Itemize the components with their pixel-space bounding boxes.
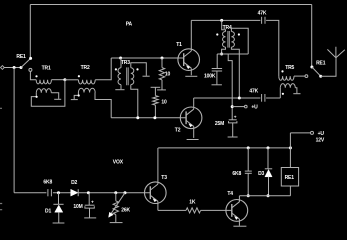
resistor 10 second xyxy=(153,96,158,106)
node A TR1/TR2 junction xyxy=(63,78,66,81)
ground bar T2 emitter xyxy=(187,139,199,141)
terminal +U ring xyxy=(245,105,248,108)
transistor T2 collector stroke xyxy=(186,108,194,116)
wire D1 top lead xyxy=(58,193,60,204)
transformer TR2 primary winding xyxy=(78,80,95,84)
terminal +U 12V ring xyxy=(311,131,314,134)
wire TR4 right winding bottom to node B xyxy=(231,47,239,98)
wire T1 emitter to ground xyxy=(190,70,192,76)
wire T2 emitter to ground xyxy=(193,128,195,138)
TR5 secondary polarity dot xyxy=(282,93,284,95)
node resistor 10 top junction xyxy=(161,57,164,60)
svg-text:TR2: TR2 xyxy=(81,65,90,71)
svg-text:D3: D3 xyxy=(258,171,264,177)
node D3 bottom junction xyxy=(267,194,270,197)
wire TR4 left winding top lead xyxy=(222,20,226,31)
svg-text:RE1: RE1 xyxy=(316,61,326,67)
ground bar pot 26K xyxy=(110,222,123,224)
svg-text:47K: 47K xyxy=(258,10,267,16)
transistor T4 emitter stroke with arrow xyxy=(232,213,240,221)
ground bar T4 emitter xyxy=(233,225,246,227)
wire TR3 right top to ground xyxy=(131,63,147,76)
svg-text:D1: D1 xyxy=(45,209,51,215)
ground bar 10M xyxy=(84,217,96,219)
wire T4 collector up xyxy=(238,196,240,202)
transistor T4 base bar xyxy=(231,204,233,217)
transistor T3 emitter stroke with arrow xyxy=(150,195,158,203)
svg-text:10: 10 xyxy=(165,72,171,78)
capacitor 47K mid right plate xyxy=(264,94,266,102)
wire T1 collector up to oscillator rail xyxy=(190,20,192,49)
transistor T4 circle xyxy=(226,200,248,222)
transistor T2 circle xyxy=(180,107,202,129)
node relay RE1 right pole xyxy=(310,66,313,69)
wire long left vertical to VOX input xyxy=(13,68,15,193)
capacitor interstage plate upper xyxy=(151,86,161,88)
node pot top junction xyxy=(114,191,117,194)
ground bar cap 100K xyxy=(212,84,222,86)
wire T2 collector up xyxy=(193,98,195,107)
wire right drop from top rail to relay RE1 pole xyxy=(311,5,313,68)
node TR3 top junction xyxy=(119,57,122,60)
ground bar TR5 secondary xyxy=(293,93,300,95)
wire +U 12V feed xyxy=(290,132,310,134)
wire cap 47K to TR5 xyxy=(266,20,279,76)
wire TR2 primary right up to T1 base line xyxy=(95,58,111,80)
wire TR2 secondary right down to VOX line xyxy=(95,93,111,118)
wire TR4 right winding top loop xyxy=(231,28,248,54)
svg-text:T4: T4 xyxy=(227,191,233,197)
node relay arm to antenna xyxy=(319,75,322,78)
scan artifact ticks left edge xyxy=(0,108,2,209)
TR4 core xyxy=(228,31,229,48)
wire TR4 bottom rail xyxy=(217,53,248,55)
TR3 core xyxy=(127,67,129,85)
svg-text:12V: 12V xyxy=(316,138,325,144)
wire T1 base line xyxy=(111,57,184,59)
node D1 top junction xyxy=(57,191,60,194)
wire TR1 primary to node A xyxy=(51,79,65,81)
transistor T1 base bar xyxy=(183,53,185,66)
wire cap 47K mid to TR5 secondary xyxy=(266,97,280,99)
node 6K8 bottom junction xyxy=(247,194,250,197)
svg-text:10: 10 xyxy=(161,99,167,105)
node 10M junction xyxy=(87,191,90,194)
node +U junction xyxy=(231,105,234,108)
TR2 secondary polarity dot xyxy=(78,94,80,96)
resistor 1K xyxy=(186,208,201,213)
capacitor 47K mid left plate xyxy=(261,94,263,102)
wire resistor 10 second to T2 base line xyxy=(154,105,156,118)
transformer TR1 secondary winding xyxy=(36,89,51,93)
diode D2 cathode bar xyxy=(77,189,79,196)
diode D1 cathode bar xyxy=(53,203,63,205)
svg-text:T3: T3 xyxy=(161,175,167,181)
wire TR5 primary to relay contact xyxy=(294,75,305,77)
ground bar cap 25M xyxy=(228,136,238,138)
svg-text:47K: 47K xyxy=(249,89,258,95)
wire D1 bottom lead xyxy=(58,212,60,222)
TR3 right polarity dot xyxy=(136,68,138,70)
svg-text:6K8: 6K8 xyxy=(232,171,241,177)
wire D2 to T3 base xyxy=(78,192,150,194)
wire oscillator rail T1 to cap 47K xyxy=(191,19,260,21)
svg-text:RE1: RE1 xyxy=(285,175,295,181)
transistor T2 base bar xyxy=(185,111,187,124)
svg-text:D2: D2 xyxy=(71,180,77,186)
ground bar D1 xyxy=(53,222,65,224)
wire VOX supply rail xyxy=(158,147,290,149)
transistor T3 circle xyxy=(145,182,167,204)
svg-text:PA: PA xyxy=(126,21,133,27)
capacitor 6K8 right plate xyxy=(50,189,52,196)
node wiper junction xyxy=(124,191,127,194)
TR5 primary polarity dot xyxy=(281,70,283,72)
capacitor 25M top plate xyxy=(229,119,237,121)
node resistor bottom junction xyxy=(153,116,156,119)
TR1 secondary polarity dot xyxy=(36,96,38,98)
wire input to relay common xyxy=(4,67,21,69)
TR2 primary polarity dot xyxy=(78,75,80,77)
transistor T3 collector stroke xyxy=(150,183,158,191)
transistor T2 emitter stroke with arrow xyxy=(186,120,194,128)
wire TR5 secondary left down to cap rail xyxy=(279,88,281,98)
svg-text:TR3: TR3 xyxy=(121,60,130,66)
node relay arm top xyxy=(29,57,32,60)
relay RE1 switch arm xyxy=(21,58,31,67)
wire 6K8 top lead xyxy=(247,148,249,171)
wire 1K to T4 base xyxy=(201,209,232,211)
wire left drop from top rail to relay contact xyxy=(29,5,31,59)
transistor T4 collector stroke xyxy=(232,200,240,208)
wire VOX input line xyxy=(14,192,46,194)
ground bar TR2 secondary xyxy=(71,99,78,101)
wire T3 collector up to VOX rail xyxy=(157,148,159,183)
relay RE1 coil box xyxy=(281,168,298,187)
wire relay contact to TR1 primary xyxy=(30,71,36,79)
wire rail to capacitor 100K xyxy=(216,54,218,68)
antenna symbol xyxy=(327,47,344,58)
relay RE1 right open contact xyxy=(305,75,308,78)
ground bar TR3 right top xyxy=(143,75,150,77)
node D3 top junction xyxy=(267,146,270,149)
relay RE1 open contact xyxy=(29,68,32,71)
capacitor 6K8 left plate xyxy=(47,189,49,196)
ground bar TR1 secondary xyxy=(54,98,61,100)
transformer TR3 left winding xyxy=(118,68,121,85)
wire pot bottom lead xyxy=(115,215,117,223)
capacitor 47K top right plate xyxy=(264,17,266,24)
node relay coil top junction xyxy=(289,146,292,149)
wire TR3 right bottom down to VOX line xyxy=(131,85,138,118)
transistor T1 emitter stroke with arrow xyxy=(184,62,192,70)
capacitor 6K8 right bottom plate xyxy=(245,172,252,174)
transformer TR2 secondary winding xyxy=(78,88,95,92)
diode D2 triangle xyxy=(71,189,78,196)
transistor T3 base bar xyxy=(149,186,151,199)
svg-text:T1: T1 xyxy=(176,42,182,48)
wire 10M to ground xyxy=(89,208,91,217)
wire TR3 left winding to ground xyxy=(120,85,122,90)
svg-text:100K: 100K xyxy=(204,74,216,80)
node TR4 bottom junction xyxy=(220,53,223,56)
svg-text:25M: 25M xyxy=(215,121,224,127)
ground bar TR3 left xyxy=(115,89,124,91)
wire TR5 secondary right to ground xyxy=(295,88,297,94)
capacitor 100K bottom plate xyxy=(212,70,222,72)
TR1 primary polarity dot xyxy=(35,75,37,77)
wire relay bottom rail to T4 collector xyxy=(239,195,290,197)
wire TR3 left winding top lead xyxy=(120,58,122,68)
wire T4 emitter to ground xyxy=(238,221,240,226)
wire 10M top lead xyxy=(88,193,90,205)
transformer TR5 secondary winding xyxy=(280,84,295,88)
wire relay coil top lead xyxy=(289,148,291,168)
node input junction xyxy=(13,66,16,69)
svg-text:T2: T2 xyxy=(175,127,181,133)
node TR3 bottom junction xyxy=(136,116,139,119)
potentiometer 26K resistor xyxy=(113,201,118,215)
capacitor 10M top plate xyxy=(85,204,95,206)
transformer TR5 primary winding xyxy=(279,76,294,80)
diode D1 triangle xyxy=(55,205,63,212)
node TR4 top junction xyxy=(220,19,223,22)
wire +U stub xyxy=(232,106,244,108)
svg-text:TR5: TR5 xyxy=(285,65,294,71)
transformer TR1 primary winding xyxy=(36,80,51,84)
node relay common xyxy=(20,66,23,69)
wire cap to resistor 10 second xyxy=(154,87,156,95)
wire 12V down to rail xyxy=(289,133,291,148)
resistor 10 first lead xyxy=(161,58,163,68)
svg-text:1K: 1K xyxy=(189,199,196,205)
potentiometer 26K wiper arrow xyxy=(111,193,125,214)
TR4 left polarity dot xyxy=(216,33,218,35)
transformer TR4 right winding xyxy=(231,32,234,48)
capacitor 25M bracket plate xyxy=(229,121,237,123)
wire D3 bottom lead xyxy=(268,177,270,196)
svg-text:+U: +U xyxy=(318,131,325,137)
wire D3 top lead xyxy=(267,148,269,169)
wire T3 emitter to 1K xyxy=(158,209,186,211)
wire 6K8 bottom lead xyxy=(247,173,249,195)
wire top PA supply rail xyxy=(30,4,311,6)
capacitor 100K top plate xyxy=(212,68,222,70)
transformer TR4 left winding xyxy=(223,32,226,48)
resistor 10 first xyxy=(159,68,164,80)
svg-text:+U: +U xyxy=(251,104,258,110)
capacitor 47K top left plate xyxy=(261,17,263,24)
transistor T1 collector stroke xyxy=(184,49,192,57)
wire T2 base line xyxy=(111,117,186,119)
TR3 left polarity dot xyxy=(115,68,117,70)
wire collector rail T2 y98 xyxy=(194,97,261,99)
capacitor 6K8 right top plate xyxy=(245,170,252,172)
svg-text:TR1: TR1 xyxy=(42,66,51,72)
diode D3 triangle xyxy=(265,170,272,177)
relay RE1 right switch arm xyxy=(312,67,321,76)
TR4 right polarity dot xyxy=(238,33,240,35)
wire pot 26K top lead xyxy=(115,193,117,201)
wire node A to TR2 primary xyxy=(65,79,79,81)
transformer TR3 right winding xyxy=(131,68,134,85)
wire TR1 secondary left loop to node A xyxy=(31,80,65,106)
wire TR2 secondary left to ground xyxy=(74,93,78,100)
wire TR4 left winding bottom lead xyxy=(222,47,226,54)
wire cap 25M to ground xyxy=(232,123,234,137)
wire TR1 secondary right to ground xyxy=(51,93,58,99)
wire relay coil bottom lead xyxy=(289,186,291,196)
wire cap to D2 xyxy=(53,192,71,194)
svg-text:26K: 26K xyxy=(121,208,130,214)
wire cap 100K to ground xyxy=(216,71,218,84)
relay RE1 input port diamond xyxy=(1,66,5,70)
ground bar T1 emitter xyxy=(185,75,197,77)
node 6K8 top junction xyxy=(247,146,250,149)
capacitor interstage plate lower xyxy=(157,89,166,91)
svg-text:VOX: VOX xyxy=(113,159,124,165)
svg-text:6K8: 6K8 xyxy=(43,180,52,186)
transistor T1 circle xyxy=(178,49,200,71)
wire relay to antenna xyxy=(321,58,336,76)
wire TR4 rail step down +U feed xyxy=(228,54,232,120)
diode D3 cathode bar xyxy=(265,168,272,170)
svg-text:RE1: RE1 xyxy=(16,54,26,60)
node B junction xyxy=(238,97,241,100)
svg-text:10M: 10M xyxy=(73,204,82,210)
wire T3 emitter down xyxy=(157,203,159,211)
capacitor 10M bracket plate xyxy=(85,206,94,208)
wire resistor to coupling cap xyxy=(161,80,163,90)
